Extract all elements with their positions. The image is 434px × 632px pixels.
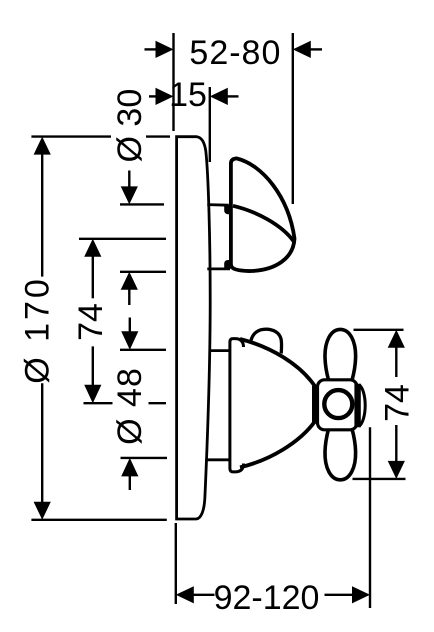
volume handle sleeve top line	[207, 203, 229, 206]
dimension O48 bottom tick	[121, 457, 168, 459]
dimension 74 right line and arrows	[388, 330, 405, 479]
svg-text:74: 74	[72, 303, 110, 341]
dimension 74 left bottom tick	[84, 402, 113, 404]
thermostat bump (temperature button)	[251, 329, 282, 353]
dimension O30 leader and arrow	[121, 171, 138, 205]
dimension O170 top extension tick	[31, 135, 111, 137]
cross handle neck bar	[312, 386, 318, 424]
dimension 74 left line and arrows	[84, 239, 101, 403]
svg-text:Ø 170: Ø 170	[19, 276, 57, 384]
dimension 74 left top tick	[79, 238, 166, 240]
extension line E (bottom, handle front)	[369, 427, 371, 608]
thermostat bell bottom edge	[240, 421, 315, 467]
cross handle bottom spoke	[325, 429, 356, 480]
dimension 52-80 right arrow	[293, 41, 322, 58]
dimension 74 right top tick	[354, 329, 404, 331]
cross handle top spoke	[325, 329, 356, 380]
dimension O30 bottom tick	[120, 271, 166, 273]
extension line A (wall plane)	[172, 33, 174, 131]
svg-text:Ø 48: Ø 48	[111, 367, 149, 445]
cross handle front cap arc	[359, 385, 365, 427]
extension line D (bottom, wall plane)	[175, 523, 177, 604]
dimension O48 top arrow	[121, 318, 138, 350]
extension line C (front of plate)	[209, 87, 211, 162]
dimension O30 bottom arrow	[121, 272, 138, 305]
dimension O170 bottom extension tick	[31, 519, 166, 521]
svg-text:74: 74	[378, 384, 416, 422]
svg-text:Ø 30: Ø 30	[111, 89, 149, 163]
dimension O48 top tick	[120, 349, 166, 351]
thermostat sleeve	[230, 339, 244, 472]
extension line B (front of volume handle)	[292, 33, 294, 204]
svg-text:92-120: 92-120	[214, 579, 320, 617]
dimension 15 right arrow	[210, 88, 239, 105]
thermostat connector bottom line	[205, 458, 229, 461]
volume handle mid arc	[233, 206, 294, 242]
volume handle sleeve bottom nub	[224, 260, 230, 269]
volume handle dome	[231, 158, 295, 271]
cross handle inner circle	[324, 390, 352, 418]
dimension 52-80 left arrow	[145, 41, 174, 58]
dimension 15 left arrow	[149, 88, 174, 105]
dimension 74 right bottom tick	[353, 478, 406, 480]
dimension O48 bottom arrow	[121, 458, 138, 490]
thermostat bell fill	[238, 341, 315, 466]
svg-text:15: 15	[169, 76, 207, 114]
cross handle hub	[318, 380, 358, 430]
svg-text:52-80: 52-80	[189, 34, 281, 72]
volume handle sleeve bottom line	[207, 267, 230, 270]
cross handle front cap bar	[354, 384, 360, 427]
dimension 92-120 line and arrows	[176, 586, 370, 603]
volume handle sleeve top nub	[224, 205, 230, 214]
thermostat bell top edge	[240, 339, 315, 387]
thermostat connector top line	[209, 349, 229, 352]
dimension O170 line and arrows	[34, 137, 51, 520]
dimension O30 top tick	[120, 203, 164, 205]
plate (wall escutcheon side view)	[177, 137, 211, 519]
